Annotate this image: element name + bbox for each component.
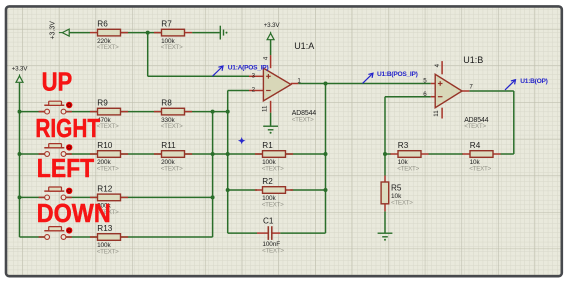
- wire pin3 horizontal to U1:A non-inverting input: [148, 75, 249, 77]
- resistor R8 leads: [154, 111, 162, 113]
- wire pin6 vertical down to R3/R5 node: [384, 97, 386, 154]
- wire C1 left branch: [228, 232, 257, 234]
- push button UP bar: [44, 104, 64, 106]
- junction output vertical/R2: [324, 188, 328, 192]
- wire row2 button to node B: [64, 111, 228, 113]
- resistor R13 leads: [90, 236, 98, 238]
- svg-text:R4: R4: [470, 141, 481, 150]
- resistor R3 leads: [390, 153, 398, 155]
- op-amp U1:A body: [263, 68, 291, 101]
- push button DOWN leads: [39, 236, 45, 238]
- op-amp U1:B plus sign: [438, 81, 443, 86]
- svg-text:<TEXT>: <TEXT>: [97, 249, 119, 256]
- wire pin6 horizontal: [385, 96, 431, 98]
- push button RIGHT bar: [44, 147, 64, 149]
- wire row1 from +3.3V arrow to R6: [69, 32, 90, 34]
- svg-text:4: 4: [263, 56, 270, 60]
- svg-text:R1: R1: [262, 141, 273, 150]
- wire R5 top branch: [384, 154, 386, 176]
- net label arrow U1:B(POS_IP): [363, 73, 374, 83]
- push button DOWN actuator: [49, 227, 62, 231]
- ground below U1:A: [263, 125, 278, 127]
- svg-text:<TEXT>: <TEXT>: [469, 166, 491, 173]
- op-amp U1:A minus sign: [266, 90, 271, 92]
- capacitor C1 plates: [267, 226, 269, 240]
- push button UP leads: [39, 111, 45, 113]
- svg-text:U1:B(POS_IP): U1:B(POS_IP): [377, 71, 418, 78]
- svg-text:<TEXT>: <TEXT>: [262, 247, 284, 254]
- push button UP contacts: [45, 109, 50, 114]
- push button DOWN bar: [44, 230, 64, 232]
- wire row3 button to U1:A output node: [64, 153, 326, 155]
- wire node B vertical from pin2 corner down to C1 row: [227, 91, 229, 234]
- wire row4 bus to button: [20, 196, 48, 198]
- wire row3 bus to button: [20, 153, 48, 155]
- op-amp U1:B body: [435, 74, 462, 107]
- wire R2 to output vertical: [290, 189, 325, 191]
- resistor R8 body: [162, 108, 185, 115]
- resistor R3 body: [398, 151, 421, 158]
- resistor R11 leads: [154, 153, 162, 155]
- svg-text:<TEXT>: <TEXT>: [97, 44, 119, 51]
- svg-text:<TEXT>: <TEXT>: [262, 166, 284, 173]
- svg-text:5: 5: [423, 78, 427, 85]
- resistor R7 leads: [154, 32, 162, 34]
- svg-text:<TEXT>: <TEXT>: [161, 166, 183, 173]
- svg-text:R7: R7: [161, 20, 172, 29]
- resistor R4 body: [470, 151, 493, 158]
- op-amp U1:B power pin 4 stub: [441, 61, 443, 74]
- wire +3.3V left bus vertical: [19, 83, 21, 237]
- wire C1 right branch: [280, 232, 325, 234]
- junction output vertical/row3 R1: [324, 152, 328, 156]
- resistor R10 leads: [90, 153, 98, 155]
- wire ladder vertical A: [212, 112, 214, 237]
- junction R3/R5/pin6 node: [383, 152, 387, 156]
- wire U1:A output to U1:B pin5: [298, 83, 430, 85]
- resistor R10 body: [98, 151, 121, 158]
- svg-text:UP: UP: [42, 68, 73, 97]
- svg-text:<TEXT>: <TEXT>: [161, 44, 183, 51]
- svg-text:+3.3V: +3.3V: [49, 21, 56, 40]
- junction node B/row2: [226, 110, 230, 114]
- power +3.3V terminal above U1:A: [270, 32, 272, 34]
- wire U1:A pin11 to ground: [270, 113, 272, 127]
- junction bus/row2: [18, 110, 22, 114]
- junction ladder vertical/row3: [211, 152, 215, 156]
- wire row1 R7 to ground: [192, 32, 220, 34]
- svg-text:<TEXT>: <TEXT>: [97, 166, 119, 173]
- resistor R11 body: [162, 151, 185, 158]
- op-amp U1:A power pin 11 stub: [270, 101, 272, 113]
- svg-text:3: 3: [252, 72, 256, 79]
- resistor R2 leads: [255, 189, 263, 191]
- push button DOWN red operator dot: [66, 227, 72, 233]
- svg-text:LEFT: LEFT: [37, 155, 95, 183]
- junction ladder vertical/row2: [211, 110, 215, 114]
- svg-text:U1:A(POS_IP): U1:A(POS_IP): [228, 64, 269, 71]
- resistor R2 body: [263, 187, 286, 194]
- wire row2 bus to button: [20, 111, 48, 113]
- resistor R5 body: [381, 182, 389, 204]
- op-amp U1:A input pin stubs: [249, 75, 263, 77]
- push button LEFT contacts: [45, 195, 50, 200]
- svg-text:R9: R9: [97, 99, 108, 108]
- wire vertical from row1 junction down to pin3 level: [147, 33, 149, 77]
- power +3.3V terminal left bus: [19, 74, 21, 76]
- junction bus/row3: [18, 152, 22, 156]
- resistor R6 leads: [90, 32, 98, 34]
- push button RIGHT actuator: [49, 144, 62, 148]
- svg-text:R8: R8: [161, 99, 172, 108]
- svg-text:<TEXT>: <TEXT>: [292, 116, 314, 123]
- resistor R9 leads: [90, 111, 98, 113]
- wire row5 button to ladder vertical corner: [64, 236, 213, 238]
- resistor R4 leads: [462, 153, 470, 155]
- svg-text:R6: R6: [97, 20, 108, 29]
- push button UP actuator: [49, 101, 62, 105]
- svg-text:U1:B: U1:B: [463, 55, 483, 65]
- op-amp U1:B output pin stub: [462, 90, 470, 92]
- svg-text:U1:A: U1:A: [294, 41, 314, 51]
- svg-text:<TEXT>: <TEXT>: [262, 202, 284, 209]
- capacitor C1 leads: [257, 232, 268, 234]
- junction U1:A output node: [324, 82, 328, 86]
- wire row5 bus to button: [20, 236, 48, 238]
- op-amp U1:B power pin 11 stub: [441, 108, 443, 119]
- wire R4 to output corner: [501, 153, 514, 155]
- svg-text:2: 2: [252, 86, 256, 93]
- svg-text:R12: R12: [97, 184, 112, 193]
- svg-text:<TEXT>: <TEXT>: [397, 166, 419, 173]
- junction node row1/pin3 branch: [146, 31, 150, 35]
- svg-text:DOWN: DOWN: [37, 200, 111, 228]
- op-amp U1:A plus sign: [266, 74, 271, 79]
- op-amp U1:B input pin stubs: [431, 83, 435, 85]
- junction ladder vertical/row4: [211, 195, 215, 199]
- svg-text:1: 1: [297, 78, 301, 85]
- push button RIGHT contacts: [45, 152, 50, 157]
- wire row1 R6 to R7: [121, 32, 162, 34]
- svg-text:<TEXT>: <TEXT>: [161, 123, 183, 130]
- svg-text:<TEXT>: <TEXT>: [464, 123, 486, 130]
- wire row4 button to ladder vertical: [64, 196, 213, 198]
- wire R3 row node to R3: [385, 153, 391, 155]
- svg-text:4: 4: [434, 63, 441, 67]
- svg-text:<TEXT>: <TEXT>: [97, 123, 119, 130]
- push button LEFT red operator dot: [66, 188, 72, 194]
- junction node B/row3: [226, 152, 230, 156]
- svg-text:R5: R5: [391, 183, 402, 192]
- op-amp U1:A power pin 4 stub: [270, 55, 272, 68]
- resistor R1 body: [263, 151, 286, 158]
- junction node B/R2 row: [226, 188, 230, 192]
- resistor R7 body: [162, 29, 185, 36]
- net label arrow U1:A(POS_IP): [213, 66, 224, 76]
- power +3.3V terminal row1: [59, 32, 62, 34]
- svg-text:11: 11: [262, 105, 269, 112]
- ground below R5: [378, 232, 393, 234]
- push button LEFT bar: [44, 190, 64, 192]
- wire pin2 horizontal to U1:A inverting input: [228, 90, 249, 92]
- resistor R1 leads: [255, 153, 263, 155]
- resistor R9 body: [98, 108, 121, 115]
- resistor R5 leads: [384, 176, 386, 183]
- push button RIGHT leads: [39, 153, 45, 155]
- op-amp U1:A output pin stub: [291, 83, 299, 85]
- push button DOWN contacts: [45, 235, 50, 240]
- junction bus/row4: [18, 195, 22, 199]
- svg-text:11: 11: [433, 110, 440, 117]
- svg-text:R11: R11: [161, 141, 176, 150]
- push button LEFT leads: [39, 196, 45, 198]
- svg-text:RIGHT: RIGHT: [35, 114, 100, 143]
- push button UP red operator dot: [66, 102, 72, 108]
- blue origin marker: [238, 137, 246, 145]
- push button RIGHT red operator dot: [66, 144, 72, 150]
- resistor R12 body: [98, 194, 121, 201]
- wire U1:B output horizontal: [469, 90, 513, 92]
- wire R5 bottom to ground: [384, 211, 386, 233]
- wire R3 to R4: [429, 153, 464, 155]
- wire U1:B output vertical: [513, 91, 515, 154]
- svg-text:+3.3V: +3.3V: [264, 22, 281, 29]
- op-amp U1:B minus sign: [438, 96, 443, 98]
- svg-text:R3: R3: [398, 141, 409, 150]
- push button LEFT actuator: [49, 187, 62, 191]
- net label arrow U1:B(OP): [505, 80, 516, 90]
- wire R2 row from node B: [228, 189, 257, 191]
- wire from +3.3V arrow to U1:A pin4: [270, 40, 272, 55]
- resistor R12 leads: [90, 196, 98, 198]
- svg-text:+3.3V: +3.3V: [12, 65, 29, 72]
- resistor R6 body: [98, 29, 121, 36]
- svg-text:7: 7: [469, 84, 473, 91]
- svg-text:R2: R2: [262, 177, 273, 186]
- svg-text:U1:B(OP): U1:B(OP): [520, 78, 547, 85]
- wire output vertical down to C1 row: [325, 84, 327, 234]
- svg-text:<TEXT>: <TEXT>: [391, 200, 413, 207]
- ground right of R7: [219, 26, 221, 40]
- resistor R13 body: [98, 234, 121, 241]
- svg-text:C1: C1: [263, 216, 274, 225]
- svg-text:6: 6: [423, 91, 427, 98]
